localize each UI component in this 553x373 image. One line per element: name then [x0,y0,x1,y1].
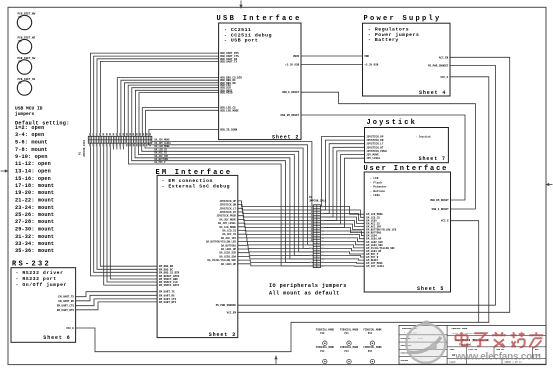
svg-text:JOYSTICK_PUSH: JOYSTICK_PUSH [216,215,236,218]
svg-text:- External SoC debug: - External SoC debug [162,184,231,190]
svg-text:EM_POT_P: EM_POT_P [366,253,379,256]
svg-text:JOYSTICK_LT: JOYSTICK_LT [219,207,236,210]
svg-text:EM_LED4: EM_LED4 [366,235,377,238]
svg-text:DA_ACC_CS: DA_ACC_CS [222,233,236,236]
svg-text:- EM connection: - EM connection [162,178,213,184]
svg-text:- Flash: - Flash [370,180,382,184]
svg-text:USB_LED_MODE: USB_LED_MODE [220,109,239,112]
svg-text:DA_LCD_CS: DA_LCD_CS [155,149,168,152]
svg-text:11-12: open: 11-12: open [15,161,51,167]
svg-text:All mount as default: All mount as default [269,290,340,296]
svg-text:Power Supply: Power Supply [364,15,442,23]
svg-text:JOY_LEVEL: JOY_LEVEL [366,157,380,160]
svg-text:JOYSTICK_RT: JOYSTICK_RT [219,211,236,214]
svg-text:EM_LCD_MODE: EM_LCD_MODE [366,213,383,216]
svg-text:VBUS: VBUS [293,55,300,58]
svg-text:21-22: mount: 21-22: mount [15,198,54,204]
svg-text:DA_JOY_MOVE: DA_JOY_MOVE [219,218,236,221]
svg-text:JOYSTICK_DN: JOYSTICK_DN [366,139,384,142]
svg-text:13-14: open: 13-14: open [15,169,51,175]
svg-text:USB_MISO: USB_MISO [220,92,233,95]
svg-text:PS_PWR_SNOOZE: PS_PWR_SNOOZE [216,304,237,307]
svg-text:P11: P11 [345,332,350,335]
svg-text:EM_UART_CTS: EM_UART_CTS [57,305,75,308]
svg-text:EM_UART_RX: EM_UART_RX [159,294,175,297]
svg-text:- Battery: - Battery [368,37,399,43]
svg-text:DA_ACC_CS: DA_ACC_CS [155,152,168,155]
svg-text:JMPCON_2X18: JMPCON_2X18 [309,200,327,203]
svg-text:DA_LCD_MODE: DA_LCD_MODE [155,145,171,148]
svg-text:31-32: mount: 31-32: mount [15,234,54,240]
svg-text:P1: P1 [79,151,82,155]
svg-text:USB_E_RESET: USB_E_RESET [432,208,450,211]
svg-text:PS_PWR_SNOOZE: PS_PWR_SNOOZE [428,64,449,67]
svg-text:Sheet 3: Sheet 3 [209,332,236,338]
svg-text:EM_UART_RTS: EM_UART_RTS [57,309,75,312]
svg-text:EM_LED2_SCK: EM_LED2_SCK [366,241,383,244]
svg-text:Joystick: Joystick [367,119,417,127]
svg-text:JOYSTICK_RT: JOYSTICK_RT [366,146,384,149]
svg-text:JOY_MOVE: JOY_MOVE [366,154,379,157]
svg-text:25-26: mount: 25-26: mount [15,212,54,218]
svg-text:DA_BUTTON1: DA_BUTTON1 [221,244,237,247]
svg-text:P15: P15 [368,350,373,353]
svg-text:EM Interface: EM Interface [156,169,233,177]
svg-text:EM_RESET_GPIO: EM_RESET_GPIO [159,275,180,278]
svg-text:USB Interface: USB Interface [217,15,302,23]
svg-text:VCC_E: VCC_E [441,220,449,223]
svg-text:DA_LED3_SDA: DA_LED3_SDA [219,255,236,258]
svg-text:Sheet 5: Sheet 5 [417,286,444,292]
svg-text:EM_RESET: EM_RESET [366,259,379,262]
svg-text:7-8: mount: 7-8: mount [15,147,48,153]
svg-text:EM_ACC_INT: EM_ACC_INT [366,225,382,228]
svg-text:+3.3V USB: +3.3V USB [364,64,378,67]
svg-text:17-18: mount: 17-18: mount [15,183,54,189]
svg-text:P4: P4 [19,60,23,63]
svg-text:FIDUCIAL_MARK: FIDUCIAL_MARK [340,346,359,349]
svg-text:DA_BUTTON1: DA_BUTTON1 [155,158,169,161]
svg-text:EM_UART_TX: EM_UART_TX [58,296,74,299]
svg-text:IO peripherals jumpers: IO peripherals jumpers [269,283,347,289]
svg-text:P12: P12 [368,332,373,335]
svg-text:EM_UART_TX: EM_UART_TX [159,291,175,294]
svg-text:P5: P5 [19,40,23,43]
svg-text:JOYSTICK_PUSH: JOYSTICK_PUSH [366,150,387,153]
svg-text:- RS232 port: - RS232 port [16,276,57,282]
svg-text:P3: P3 [19,81,23,84]
svg-text:EM_BUTTON1: EM_BUTTON1 [366,232,382,235]
svg-text:P6: P6 [19,16,23,19]
svg-text:EM_JOY_MOVE: EM_JOY_MOVE [366,262,383,265]
svg-text:DA_ACC_INT: DA_ACC_INT [221,237,237,240]
svg-text:JMPCON_2X19: JMPCON_2X19 [83,139,86,157]
svg-text:EM_DBG_CS_DIR: EM_DBG_CS_DIR [159,271,180,274]
svg-text:JOYSTICK_UP: JOYSTICK_UP [219,200,236,203]
svg-text:USB_EM_RESET: USB_EM_RESET [430,199,449,202]
svg-text:DA_CS/BL/YELLOW_SDC: DA_CS/BL/YELLOW_SDC [207,259,236,262]
svg-text:EM_POT_R: EM_POT_R [366,256,379,259]
svg-text:EM_LED3_SDA: EM_LED3_SDA [366,244,383,247]
svg-text:FIDUCIAL_MARK: FIDUCIAL_MARK [340,328,359,331]
svg-text:PCB_FEET_NE: PCB_FEET_NE [18,36,36,39]
svg-text:P14: P14 [345,350,350,353]
svg-text:29-30: mount: 29-30: mount [15,227,54,233]
svg-text:RS-232: RS-232 [12,261,51,269]
svg-text:P13: P13 [320,350,325,353]
svg-text:DA_LCD_MODE: DA_LCD_MODE [219,226,236,229]
svg-text:EM_DBG_DD: EM_DBG_DD [159,265,173,268]
svg-text:FIDUCIAL_MARK: FIDUCIAL_MARK [363,346,382,349]
svg-text:3-4: open: 3-4: open [15,132,44,138]
svg-text:- Joystick: - Joystick [416,135,432,138]
svg-text:VCC_E: VCC_E [440,76,448,79]
svg-text:19-20: mount: 19-20: mount [15,190,54,196]
svg-text:JOYSTICK_UP: JOYSTICK_UP [366,135,384,138]
svg-text:- LCD: - LCD [370,177,379,180]
svg-text:EM_SNIFF_DATA: EM_SNIFF_DATA [159,284,180,287]
svg-text:DA_JOY_LEVEL: DA_JOY_LEVEL [218,222,237,225]
svg-text:COMPANY NAME: COMPANY NAME [452,327,468,330]
svg-text:USB_E_RESET: USB_E_RESET [282,91,300,94]
svg-text:ACC_EN: ACC_EN [439,56,449,59]
svg-text:VDD: VDD [364,55,369,58]
svg-text:Sheet 2: Sheet 2 [272,134,299,140]
svg-text:EM_SNIFF_CLK: EM_SNIFF_CLK [159,281,178,284]
svg-text:23-24: mount: 23-24: mount [15,205,54,211]
svg-text:- On/Off jumper: - On/Off jumper [16,282,67,288]
svg-text:- Regulators: - Regulators [368,27,409,33]
svg-text:SIZE: SIZE [450,348,456,351]
svg-text:USB_EM_RESET: USB_EM_RESET [281,114,300,117]
svg-text:EM_UART_RTS: EM_UART_RTS [159,301,177,304]
svg-text:- RS232 driver: - RS232 driver [16,270,64,276]
svg-text:5-6: mount: 5-6: mount [15,140,48,146]
svg-text:27-28: mount: 27-28: mount [15,219,54,225]
svg-text:FIDUCIAL_MARK: FIDUCIAL_MARK [316,346,335,349]
svg-text:VCC_E: VCC_E [66,327,74,330]
svg-text:DA_JOY_LEVEL: DA_JOY_LEVEL [155,142,172,145]
svg-text:P2: P2 [309,196,313,199]
svg-text:EM_CS/BL/YELLOW_SDC: EM_CS/BL/YELLOW_SDC [366,247,395,250]
svg-text:EM_ACC_CS: EM_ACC_CS [366,222,380,225]
svg-text:EM_LCD_CS: EM_LCD_CS [366,216,380,219]
svg-text:JOYSTICK_LT: JOYSTICK_LT [366,143,384,146]
svg-text:33-34: mount: 33-34: mount [15,241,54,247]
svg-text:DA_LCD_CS: DA_LCD_CS [222,230,236,233]
svg-text:FIDUCIAL_MARK: FIDUCIAL_MARK [316,328,335,331]
svg-text:- CC2511: - CC2511 [224,27,251,33]
svg-text:PCB_FEET_SE: PCB_FEET_SE [18,78,36,81]
svg-text:35-36: mount: 35-36: mount [15,248,54,254]
svg-text:P10: P10 [320,332,325,335]
svg-text:USB_ID_CONN: USB_ID_CONN [220,129,238,132]
svg-text:Sheet 4: Sheet 4 [419,90,446,96]
svg-text:DA_BUTTON/YELLOW_LED: DA_BUTTON/YELLOW_LED [206,241,237,244]
svg-text:EM_UART_RX: EM_UART_RX [58,300,74,303]
svg-text:PCB_FEET_SW: PCB_FEET_SW [18,57,36,60]
svg-text:User Interface: User Interface [364,165,449,173]
svg-text:DA_LED2_SCK: DA_LED2_SCK [219,252,236,255]
svg-text:- Potmeter: - Potmeter [370,186,387,189]
svg-text:DA_POT_P: DA_POT_P [155,161,167,164]
svg-text:9-10: open: 9-10: open [15,154,48,160]
svg-text:DA_JOY_MOVE: DA_JOY_MOVE [155,139,171,142]
svg-text:VCC_EM: VCC_EM [227,311,237,314]
svg-text:- CC2511 debug: - CC2511 debug [224,32,272,38]
svg-text:- Buttons: - Buttons [370,190,385,193]
svg-text:ISSUED: ISSUED [401,359,409,362]
svg-text:DA_LED1_WP: DA_LED1_WP [221,248,237,251]
svg-text:www.elecfans.com: www.elecfans.com [455,352,541,363]
svg-text:USB MCU ID: USB MCU ID [15,106,43,112]
svg-text:JOYSTICK_DN: JOYSTICK_DN [219,204,236,207]
svg-text:EM_LED1_WP: EM_LED1_WP [366,238,382,241]
svg-text:Sheet 7: Sheet 7 [419,156,446,162]
svg-text:USB_UART_TX: USB_UART_TX [220,60,238,63]
svg-text:EM_LED4_WP: EM_LED4_WP [366,250,382,253]
svg-text:15-16: open: 15-16: open [15,176,51,182]
svg-text:EM_BUTTON/YELLOW_LED: EM_BUTTON/YELLOW_LED [366,229,397,232]
svg-text:1=2: open: 1=2: open [15,125,44,131]
svg-text:Sheet 6: Sheet 6 [43,335,70,341]
svg-text:FIDUCIAL_MARK: FIDUCIAL_MARK [363,328,382,331]
svg-text:EM_JOY_LEVEL: EM_JOY_LEVEL [366,265,385,268]
svg-text:EM_LED1: EM_LED1 [366,219,377,222]
svg-text:jumpers: jumpers [15,111,35,117]
svg-text:PCB_FEET_NW: PCB_FEET_NW [18,12,36,15]
svg-text:- Power jumpers: - Power jumpers [368,32,419,38]
svg-text:- USB port: - USB port [224,38,258,44]
svg-text:- LEDs: - LEDs [370,194,380,197]
svg-text:+3.3V USB: +3.3V USB [285,64,299,67]
svg-text:DA_LED4_WP: DA_LED4_WP [221,263,237,266]
